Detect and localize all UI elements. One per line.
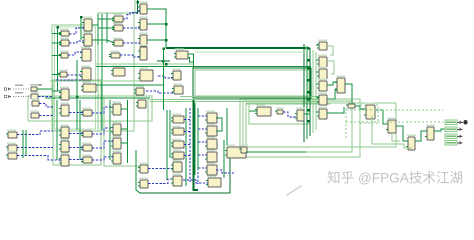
wire T_d2 out bbox=[147, 23, 166, 25]
bus F1 out bbox=[17, 131, 53, 135]
LUT F3 bbox=[6, 151, 17, 159]
bus rst run bbox=[38, 96, 53, 98]
bus trunk to V bbox=[198, 141, 207, 143]
bus M_e stair bbox=[146, 91, 174, 93]
block Q_big bbox=[81, 82, 96, 92]
wire y81 run bbox=[50, 80, 140, 82]
bus W3 out bbox=[39, 104, 53, 108]
bus U to trunk bbox=[184, 119, 190, 121]
junction x81 y17 bbox=[80, 16, 82, 18]
register DIV_r bbox=[295, 108, 305, 121]
wire feed T_c2 bbox=[98, 27, 114, 29]
wire y85 run bbox=[96, 84, 163, 86]
wire vtrunk x224 bbox=[223, 140, 225, 178]
LUT F1 bbox=[6, 130, 17, 138]
wire R outs to x127 b bbox=[121, 128, 128, 130]
bus T_c3 to T_d3 bbox=[123, 42, 140, 44]
LUT Q2 bbox=[81, 129, 92, 137]
wire T_d1 out bbox=[147, 9, 166, 48]
output pin O3 bbox=[460, 135, 463, 139]
junction blob b bbox=[165, 63, 167, 65]
wire long bottom feed bbox=[140, 150, 230, 193]
bus P-Q row4 bbox=[69, 159, 83, 161]
bus Q-R bbox=[92, 141, 113, 148]
register M_r4 bbox=[80, 66, 91, 80]
wire vtrunk x198 bbox=[197, 108, 199, 170]
bus U to trunk bbox=[184, 131, 190, 133]
wire y64 pale run bbox=[96, 63, 193, 65]
iobuf W2 bbox=[30, 92, 39, 99]
LUT T_b2 bbox=[59, 38, 69, 46]
module boundary nested 1 bbox=[243, 101, 352, 152]
register RC3 bbox=[406, 135, 416, 150]
bus Q-R bbox=[92, 128, 113, 134]
register V2 bbox=[205, 124, 217, 136]
bus F2 out bbox=[17, 147, 53, 149]
LUT Q3 bbox=[81, 143, 92, 151]
LUT T_b1 bbox=[59, 29, 69, 36]
wire feed row74 bbox=[52, 74, 60, 76]
output pin O4 bbox=[460, 141, 463, 145]
bus vertical trunk x198 bbox=[197, 111, 199, 184]
register RC1 bbox=[364, 103, 375, 119]
wire regfile vtrunk x57 bbox=[56, 100, 58, 160]
bus M_a1 to M_r3 bbox=[68, 52, 82, 55]
wire trunk to X y112 bbox=[316, 111, 319, 113]
register X4 bbox=[317, 79, 327, 91]
wire regfile vtrunk x127 bbox=[127, 100, 129, 163]
junction right trunk y110 bbox=[307, 109, 309, 111]
bus M_w1 stair bbox=[158, 76, 173, 78]
LUT U2 bbox=[171, 126, 184, 135]
wire clk run bbox=[37, 88, 52, 90]
register T_d3 bbox=[138, 33, 148, 46]
wire vertical x77 bbox=[76, 60, 78, 130]
bus U to trunk bbox=[184, 144, 190, 146]
LUT T_c3 bbox=[112, 38, 123, 46]
register R4 bbox=[111, 151, 121, 164]
wire M_big2 out hook2 bbox=[188, 58, 194, 63]
module boundary register bank A bbox=[52, 25, 98, 131]
LUT M_e2 bbox=[172, 84, 183, 94]
wire T_r2 out bbox=[92, 40, 114, 43]
wire regfile vtrunk x80 bbox=[79, 100, 81, 160]
wire F col feeds bbox=[22, 130, 24, 158]
junction right trunk y60 bbox=[307, 59, 309, 61]
LUT Y2 bbox=[346, 102, 356, 108]
stray pen mark bbox=[287, 186, 301, 195]
bus S1 out bbox=[148, 168, 173, 170]
input pin clk bbox=[4, 85, 23, 91]
bus vertical trunk x190 bbox=[189, 108, 191, 182]
LUT corner bbox=[239, 145, 248, 153]
register X6 bbox=[317, 107, 327, 119]
wire X outs stair 2 bbox=[327, 61, 334, 74]
wire RC4 out bbox=[434, 129, 446, 131]
bus M_a2 to M_r4 bbox=[67, 74, 82, 76]
wire bus lines below big block 3 bbox=[180, 96, 318, 98]
wire vertical x98t bbox=[97, 14, 99, 45]
wire regfile vtrunk x110 bbox=[109, 100, 111, 160]
wire y61 junction run bbox=[157, 60, 170, 62]
wire chain bottom loop bbox=[372, 116, 412, 148]
register P3 bbox=[59, 125, 69, 138]
wire vertical x137 bbox=[137, 0, 139, 14]
wire T_r1 out bbox=[92, 19, 114, 25]
wire vertical x102 bbox=[101, 14, 103, 130]
wire RC3 out stair bbox=[415, 131, 427, 141]
block M_big2 bbox=[174, 49, 188, 59]
wire bus lines below big block 1 bbox=[150, 99, 318, 101]
bus S2 out bbox=[148, 179, 175, 184]
block W_big bbox=[225, 145, 246, 158]
wire RC1 out stair bbox=[375, 110, 388, 124]
junction right trunk y92 bbox=[307, 91, 309, 93]
bus T_c1 to T_d1 step bbox=[123, 9, 140, 19]
block M_big1 bbox=[138, 68, 153, 81]
register R3 bbox=[111, 136, 121, 149]
bus P-Q row3 bbox=[69, 147, 83, 149]
block DIV_big bbox=[255, 105, 271, 116]
wire RC1 feed bbox=[355, 106, 366, 109]
junction M x163 y48 bbox=[163, 48, 165, 50]
wire feed trunk x57 bbox=[57, 27, 59, 91]
wire RC2 out stair bbox=[396, 126, 408, 141]
register Y1 bbox=[335, 76, 345, 93]
bus V out long bbox=[216, 170, 234, 173]
junction right trunk y68 bbox=[307, 67, 309, 69]
LUT M_f1 bbox=[134, 86, 144, 95]
svg-text:知乎 @FPGA技术江湖: 知乎 @FPGA技术江湖 bbox=[327, 170, 463, 186]
LUT U3 bbox=[171, 139, 184, 148]
label io buf bbox=[30, 84, 42, 86]
LUT T_c2 bbox=[112, 23, 123, 31]
module boundary ctrl right bbox=[360, 105, 378, 123]
bus T_b2 to T_r2 bbox=[69, 41, 84, 43]
LUT Q1 bbox=[81, 108, 92, 116]
LUT W4 bbox=[30, 111, 39, 118]
junction blob a bbox=[162, 60, 164, 62]
LUT S2 bbox=[138, 178, 148, 188]
wire V col outs bbox=[216, 118, 222, 131]
wire U col feed vertical2 bbox=[166, 110, 168, 180]
wire W_big out bbox=[246, 151, 306, 153]
wire right trunk 4 bbox=[312, 50, 314, 133]
wire feed row55 bbox=[52, 55, 61, 57]
output label O2 bbox=[445, 127, 457, 132]
LUT M_c4 bbox=[109, 51, 120, 58]
wire bus lines below big block 4 bbox=[246, 103, 330, 105]
wire trunk x186 bbox=[185, 108, 187, 186]
register M_f2 bbox=[136, 98, 146, 108]
LUT F2 bbox=[6, 143, 17, 151]
bus F3 out bbox=[17, 156, 61, 161]
wire U col feed vertical bbox=[169, 110, 171, 158]
junction x166 y40 bbox=[165, 39, 167, 41]
wire pale y52 bbox=[195, 51, 308, 53]
register T_r2 bbox=[82, 32, 92, 46]
wire Y1 out bbox=[345, 84, 352, 103]
LUT W3 bbox=[31, 99, 40, 106]
bus W4 out bbox=[39, 115, 53, 117]
LUT M_a1 bbox=[59, 51, 69, 58]
junction x77 y97 bbox=[76, 96, 78, 98]
module boundary divider bbox=[249, 104, 310, 124]
register P5 bbox=[59, 153, 69, 166]
wire pale x135 top bbox=[134, 0, 136, 13]
register P2 bbox=[59, 103, 69, 116]
module boundary register bank A inner bbox=[55, 27, 96, 129]
LUT S1 bbox=[138, 163, 148, 173]
output label O3 bbox=[445, 134, 457, 139]
input pin rst_n bbox=[4, 92, 23, 98]
bus P-Q row2 bbox=[69, 133, 83, 135]
wire R outs to x127 bbox=[121, 108, 128, 110]
module boundary regfile right bbox=[104, 98, 148, 166]
junction right trunk y99 bbox=[307, 98, 309, 100]
junction right trunk y48 bbox=[307, 47, 309, 49]
module boundary outer bottom-left bbox=[28, 96, 152, 121]
junction right trunk y121 bbox=[307, 120, 309, 122]
bus U6-V bbox=[183, 180, 208, 183]
wire right trunk 1 bbox=[303, 44, 305, 142]
output label O4 bbox=[445, 141, 457, 146]
bus trunk to V bbox=[198, 167, 207, 169]
register RC4 bbox=[425, 125, 435, 140]
wire F col feeds2 bbox=[25, 130, 27, 156]
junction x137 y2 bbox=[137, 1, 139, 3]
wire vtrunk x227 bbox=[226, 108, 228, 145]
bus T_b1 to T_r1 bbox=[69, 28, 84, 34]
wire right trunk 3 bbox=[309, 48, 311, 136]
wire rst dotted bbox=[13, 96, 31, 98]
wire vertical x107 bbox=[106, 13, 108, 43]
LUT M_w1 bbox=[111, 66, 125, 76]
register T_d1 bbox=[138, 2, 148, 14]
LUT M_a2 bbox=[58, 70, 68, 77]
register T_d2 bbox=[138, 17, 148, 30]
module boundary nested 2 bbox=[246, 103, 396, 147]
register R2 bbox=[111, 122, 121, 135]
wire M_big2 out hook bbox=[188, 54, 194, 68]
junction x166 y24 bbox=[165, 23, 167, 25]
register P1 bbox=[59, 87, 69, 100]
register V4 bbox=[205, 150, 217, 162]
register M_r3 bbox=[80, 47, 91, 61]
wire clk dotted bbox=[13, 88, 31, 90]
output pin O2 bbox=[460, 128, 463, 132]
module boundary counter top bbox=[98, 13, 134, 131]
bus Q-R bbox=[92, 107, 113, 113]
wire pin connects bbox=[457, 122, 463, 143]
bus y80 run bbox=[56, 79, 84, 81]
bus Q-R bbox=[92, 157, 113, 160]
junction right trunk y80 bbox=[307, 79, 309, 81]
wire feed row43 bbox=[52, 42, 61, 44]
module boundary nested 3 bbox=[240, 99, 360, 157]
bus P-Q row1 bbox=[69, 112, 83, 114]
wire trunk to X y72 bbox=[316, 71, 319, 73]
LUT U4 bbox=[171, 150, 184, 159]
register T_r1 bbox=[82, 17, 92, 31]
LUT Q4 bbox=[81, 155, 92, 163]
wire right trunk 2 bbox=[306, 46, 308, 139]
wire X5 out bbox=[327, 90, 337, 99]
register V5 bbox=[205, 163, 217, 175]
output label O1 bbox=[445, 120, 457, 125]
wire X outs to Y bbox=[327, 82, 337, 85]
junction x57 y27 bbox=[57, 26, 59, 28]
wire R outs to x127 c bbox=[121, 142, 128, 144]
bus trunk to V bbox=[198, 154, 207, 156]
register X2 bbox=[317, 55, 327, 67]
register RC2 bbox=[386, 118, 396, 133]
wire T_d3 out bbox=[147, 39, 166, 41]
wire dashed out run1 bbox=[346, 109, 443, 111]
register U6 bbox=[171, 174, 182, 186]
wire y66 run bbox=[96, 66, 311, 68]
bus DIV squiggle bbox=[283, 112, 297, 117]
iobuf W1 bbox=[30, 85, 38, 91]
wire x163 vertical bbox=[163, 49, 165, 111]
wire right trunk 5 bbox=[315, 52, 317, 130]
register U5 bbox=[171, 160, 182, 172]
wire trunk to X y45 bbox=[316, 44, 319, 46]
register M_d4 bbox=[138, 45, 148, 60]
LUT M_e1 bbox=[171, 69, 181, 80]
wire trunk to X y60 bbox=[316, 59, 319, 61]
output pad dot bbox=[463, 120, 467, 124]
bus trunk to V bbox=[198, 115, 207, 117]
wire chain mid loop bbox=[392, 133, 400, 141]
bus trunk to V bbox=[198, 128, 207, 130]
LUT DIV_s bbox=[275, 108, 284, 114]
register X3 bbox=[317, 67, 327, 79]
LUT T_c1 bbox=[112, 14, 123, 22]
wire vtrunk x136 bbox=[136, 150, 140, 193]
bus U to trunk bbox=[184, 155, 190, 157]
module big_register block bbox=[193, 68, 311, 98]
LUT U1 bbox=[171, 114, 184, 123]
bus M_c4 to M_d4 bbox=[120, 55, 140, 57]
wire DIV feed bbox=[249, 110, 257, 112]
wire DIV out bbox=[304, 113, 310, 115]
wire dashed out run2 bbox=[346, 121, 443, 123]
wire bus lines below big block 2 bbox=[150, 101, 318, 103]
module boundary regfile left bbox=[53, 80, 101, 165]
block V_wide bbox=[206, 176, 221, 187]
wire feed row33 bbox=[52, 33, 61, 35]
wire feed row89 bbox=[52, 90, 61, 92]
wire trunk y48 bbox=[166, 47, 306, 49]
output pin O1 bbox=[460, 121, 463, 125]
bus T_c2 to T_d2 bbox=[123, 27, 140, 29]
wire trunk to X y97 bbox=[316, 96, 319, 98]
register P4 bbox=[59, 139, 69, 152]
wire trunk x195 bbox=[194, 103, 196, 175]
register V3 bbox=[205, 137, 217, 149]
wire trunk x193 bbox=[194, 100, 199, 190]
register R1 bbox=[111, 102, 121, 115]
register V1 bbox=[205, 111, 217, 123]
wire vertical x81 bbox=[80, 16, 82, 40]
wire y98 run bbox=[45, 97, 150, 99]
wire X outs stair 1 bbox=[327, 46, 333, 55]
register X1 bbox=[317, 40, 327, 50]
register X5 bbox=[317, 93, 327, 105]
wire trunk to X y84 bbox=[316, 83, 319, 85]
wire X6 out right bbox=[327, 107, 344, 113]
wire dashed vertical right bbox=[345, 108, 347, 140]
